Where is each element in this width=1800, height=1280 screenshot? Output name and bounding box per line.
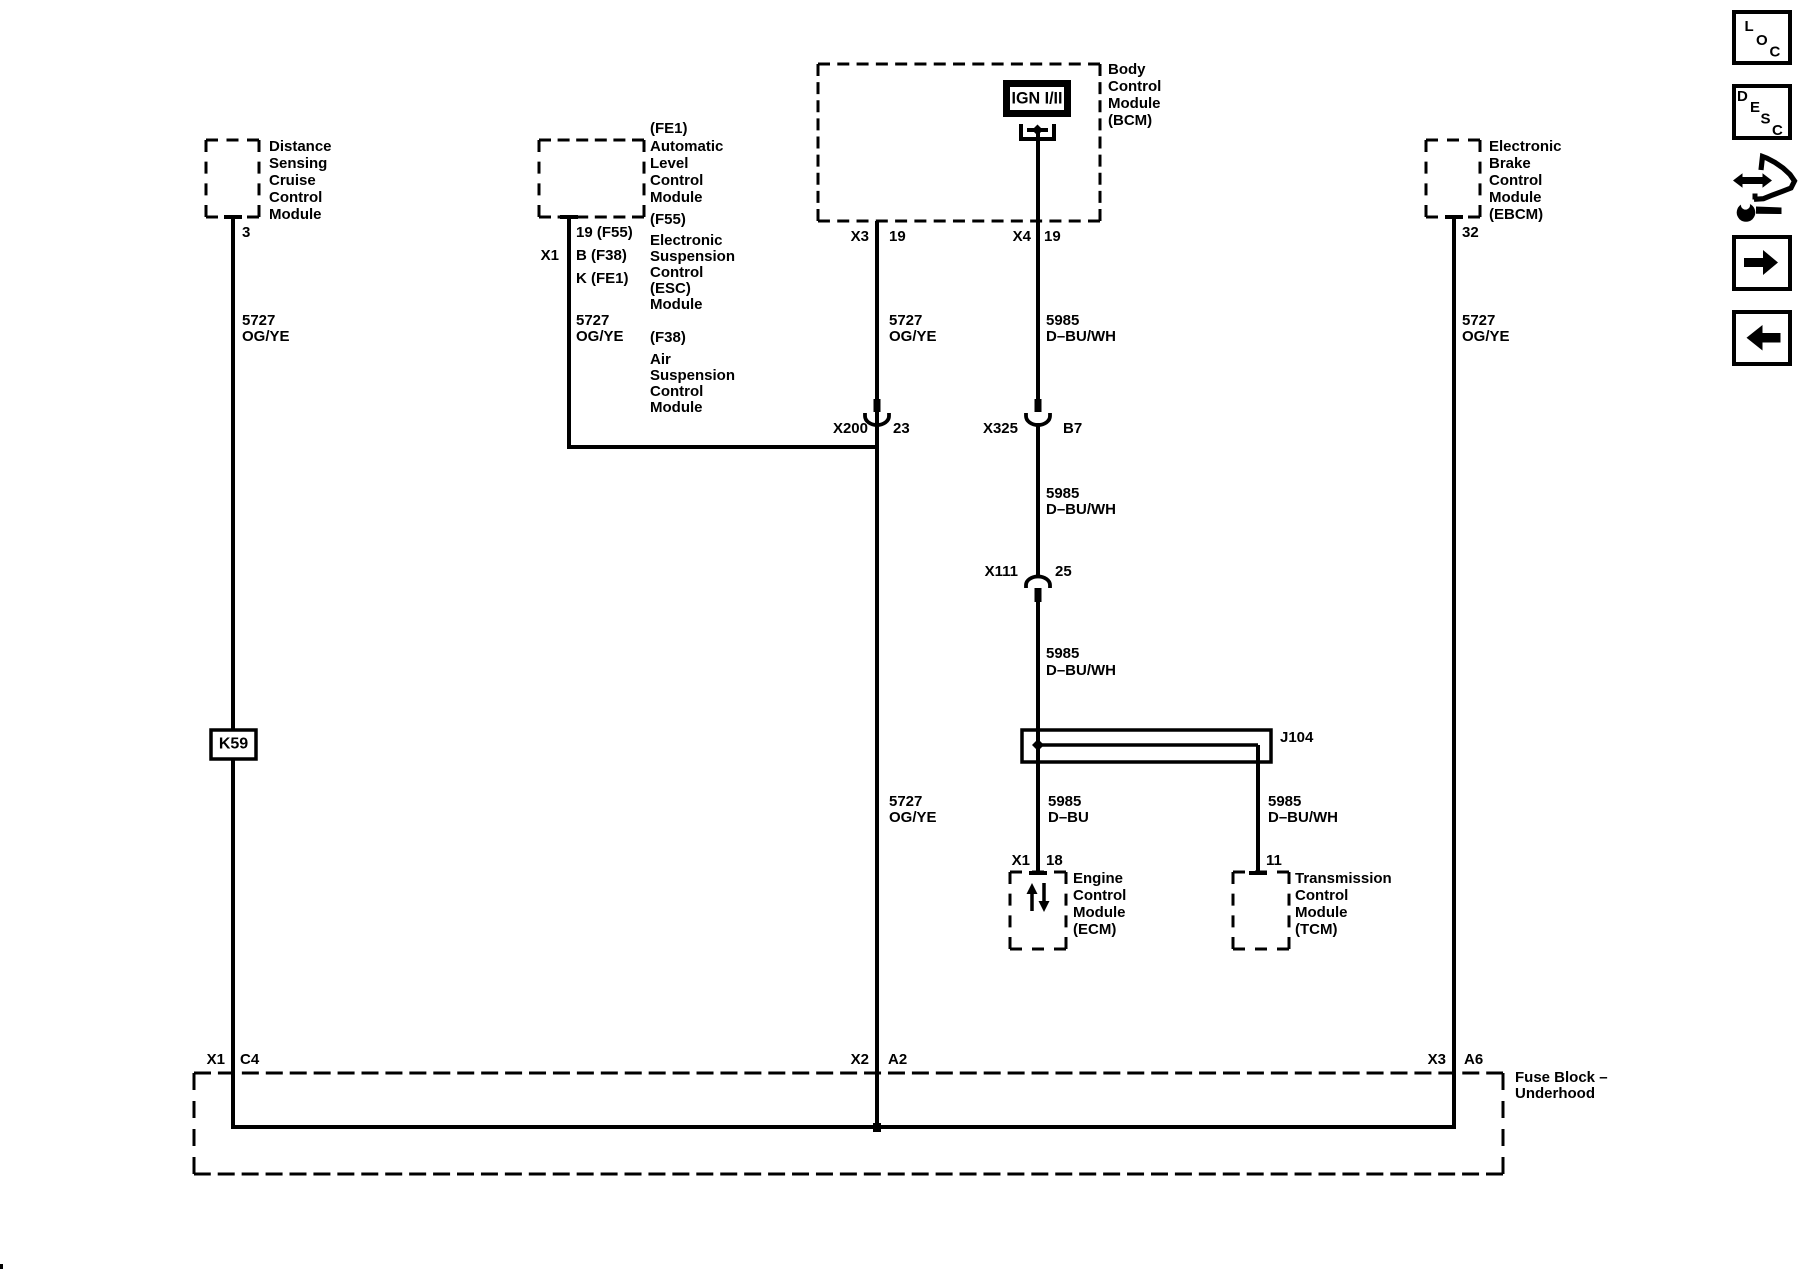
ECM terminal tick X1-18 <box>1029 871 1047 875</box>
svg-text:B7: B7 <box>1063 420 1082 437</box>
svg-text:Control: Control <box>1489 172 1542 189</box>
svg-text:K59: K59 <box>219 736 248 753</box>
svg-text:Control: Control <box>1295 887 1348 904</box>
svg-text:(TCM): (TCM) <box>1295 921 1337 938</box>
svg-text:Module: Module <box>1489 189 1542 206</box>
svg-text:J104: J104 <box>1280 729 1314 746</box>
svg-text:L: L <box>1745 18 1754 35</box>
terminal tick at EBCM <box>1445 215 1463 219</box>
svg-text:Control: Control <box>650 172 703 189</box>
relay K59 box <box>211 730 256 759</box>
svg-text:Module: Module <box>1073 904 1126 921</box>
svg-text:Air: Air <box>650 351 671 368</box>
svg-text:5727: 5727 <box>889 793 922 810</box>
svg-text:B (F38): B (F38) <box>576 247 627 264</box>
module: Distance Sensing Cruise Control Module (dashed box) <box>206 140 259 217</box>
Fuse Block - Underhood dashed box <box>194 1073 1503 1174</box>
splice pack J104 <box>1022 730 1271 762</box>
svg-text:A6: A6 <box>1464 1051 1483 1068</box>
junction dot at X2/A2 <box>873 1123 881 1132</box>
svg-text:Electronic: Electronic <box>1489 138 1562 155</box>
svg-text:11: 11 <box>1266 852 1282 869</box>
pin 3 terminal tick at DSCC <box>224 215 242 219</box>
in-line connector X325 pin B7 <box>1026 399 1050 425</box>
in-line connector X200 pin 23 <box>865 399 889 425</box>
svg-text:19: 19 <box>1044 228 1061 245</box>
icon: diagnostic squiggle with double arrow and wrench <box>1733 157 1795 222</box>
svg-text:Electronic: Electronic <box>650 232 723 249</box>
icon: forward arrow box <box>1734 237 1790 289</box>
svg-text:(EBCM): (EBCM) <box>1489 206 1543 223</box>
stray mark bottom left <box>0 1264 3 1269</box>
svg-text:C: C <box>1770 44 1781 61</box>
svg-text:Suspension: Suspension <box>650 248 735 265</box>
svg-text:Module: Module <box>1108 95 1161 112</box>
svg-text:Module: Module <box>269 206 322 223</box>
svg-text:Engine: Engine <box>1073 870 1123 887</box>
wire 5727 OG/YE from EBCM down to fuse block <box>1452 217 1456 1127</box>
svg-text:OG/YE: OG/YE <box>889 328 937 345</box>
svg-text:18: 18 <box>1046 852 1063 869</box>
svg-text:Module: Module <box>650 399 703 416</box>
wire 5985 D-BU/WH from X325 down to X111 <box>1036 423 1040 576</box>
svg-text:Sensing: Sensing <box>269 155 327 172</box>
svg-text:X200: X200 <box>833 420 868 437</box>
svg-text:X3: X3 <box>1428 1051 1446 1068</box>
bus wire inside fuse block <box>231 1125 1456 1129</box>
wire 5727 OG/YE from BCM X3 down to fuse block <box>875 221 879 1127</box>
icon: DESC box <box>1734 86 1790 139</box>
svg-text:5727: 5727 <box>242 312 275 329</box>
svg-text:D–BU/WH: D–BU/WH <box>1046 328 1116 345</box>
terminal tick at ALC module <box>560 215 578 219</box>
module: Engine Control Module (ECM) dashed box <box>1010 872 1066 949</box>
svg-text:Transmission: Transmission <box>1295 870 1392 887</box>
wire from IGN feed down inside BCM to X4 <box>1036 130 1040 399</box>
svg-text:19 (F55): 19 (F55) <box>576 224 633 241</box>
svg-text:Cruise: Cruise <box>269 172 316 189</box>
svg-text:OG/YE: OG/YE <box>889 809 937 826</box>
svg-text:Control: Control <box>1073 887 1126 904</box>
svg-text:E: E <box>1750 99 1760 116</box>
svg-text:Underhood: Underhood <box>1515 1085 1595 1102</box>
icon: back arrow box <box>1734 312 1790 364</box>
wire 5985 D-BU/WH from J104 to TCM <box>1256 745 1260 872</box>
module: Transmission Control Module (TCM) dashed box <box>1233 872 1289 949</box>
svg-text:K (FE1): K (FE1) <box>576 270 629 287</box>
svg-text:D–BU/WH: D–BU/WH <box>1046 501 1116 518</box>
svg-text:Control: Control <box>1108 78 1161 95</box>
icon: LOC box <box>1734 12 1790 63</box>
svg-text:X325: X325 <box>983 420 1018 437</box>
svg-text:(F55): (F55) <box>650 211 686 228</box>
svg-text:C: C <box>1772 122 1783 139</box>
svg-text:X1: X1 <box>1012 852 1030 869</box>
IGN I/II feed box inside BCM <box>1003 80 1071 117</box>
svg-text:X4: X4 <box>1013 228 1032 245</box>
svg-text:32: 32 <box>1462 224 1479 241</box>
svg-text:D–BU: D–BU <box>1048 809 1089 826</box>
svg-text:Control: Control <box>650 383 703 400</box>
svg-text:X2: X2 <box>851 1051 869 1068</box>
svg-text:Distance: Distance <box>269 138 332 155</box>
svg-text:C4: C4 <box>240 1051 260 1068</box>
svg-text:5985: 5985 <box>1046 312 1079 329</box>
svg-text:Body: Body <box>1108 61 1146 78</box>
wire 5985 D-BU from J104 to ECM <box>1036 745 1040 872</box>
svg-text:(BCM): (BCM) <box>1108 112 1152 129</box>
svg-text:(FE1): (FE1) <box>650 120 688 137</box>
svg-text:5727: 5727 <box>576 312 609 329</box>
svg-text:X3: X3 <box>851 228 869 245</box>
svg-text:D–BU/WH: D–BU/WH <box>1268 809 1338 826</box>
svg-text:A2: A2 <box>888 1051 907 1068</box>
svg-text:5985: 5985 <box>1046 485 1079 502</box>
svg-text:D: D <box>1737 88 1748 105</box>
module: Automatic Level Control Module (dashed box) <box>539 140 644 217</box>
svg-text:OG/YE: OG/YE <box>1462 328 1510 345</box>
svg-text:19: 19 <box>889 228 906 245</box>
svg-text:(ESC): (ESC) <box>650 280 691 297</box>
svg-text:25: 25 <box>1055 563 1072 580</box>
svg-text:X1: X1 <box>541 247 559 264</box>
svg-text:Control: Control <box>269 189 322 206</box>
svg-text:X111: X111 <box>985 563 1018 580</box>
svg-text:Automatic: Automatic <box>650 138 723 155</box>
svg-text:5985: 5985 <box>1268 793 1301 810</box>
svg-text:5985: 5985 <box>1046 645 1079 662</box>
svg-text:Level: Level <box>650 155 688 172</box>
svg-text:OG/YE: OG/YE <box>242 328 290 345</box>
ECM bidirectional arrows <box>1027 883 1050 912</box>
svg-text:OG/YE: OG/YE <box>576 328 624 345</box>
svg-text:5985: 5985 <box>1048 793 1081 810</box>
svg-text:IGN I/II: IGN I/II <box>1012 89 1063 108</box>
svg-text:23: 23 <box>893 420 910 437</box>
IGN feed bracket symbol <box>1021 124 1054 139</box>
svg-text:Control: Control <box>650 264 703 281</box>
svg-text:Module: Module <box>650 296 703 313</box>
svg-text:Module: Module <box>1295 904 1348 921</box>
svg-text:X1: X1 <box>207 1051 225 1068</box>
svg-text:3: 3 <box>242 224 250 241</box>
module: Electronic Brake Control Module (EBCM) dashed box <box>1426 140 1480 217</box>
svg-text:Suspension: Suspension <box>650 367 735 384</box>
svg-text:(ECM): (ECM) <box>1073 921 1116 938</box>
svg-text:(F38): (F38) <box>650 329 686 346</box>
svg-text:Fuse Block –: Fuse Block – <box>1515 1069 1608 1086</box>
svg-text:5727: 5727 <box>889 312 922 329</box>
svg-text:Module: Module <box>650 189 703 206</box>
svg-text:Brake: Brake <box>1489 155 1531 172</box>
wire 5985 D-BU/WH from X111 down to splice J104 <box>1036 602 1040 745</box>
TCM terminal tick pin 11 <box>1249 871 1267 875</box>
module: Body Control Module (BCM) dashed box <box>818 64 1100 221</box>
svg-text:S: S <box>1761 111 1771 128</box>
wire 5727 OG/YE from DSCC down to fuse block <box>231 217 235 1127</box>
svg-text:D–BU/WH: D–BU/WH <box>1046 662 1116 679</box>
svg-text:5727: 5727 <box>1462 312 1495 329</box>
wire 5727 OG/YE from ALC down then right to X200 junction <box>569 217 879 447</box>
svg-text:O: O <box>1756 32 1768 49</box>
in-line connector X111 pin 25 <box>1026 577 1050 603</box>
